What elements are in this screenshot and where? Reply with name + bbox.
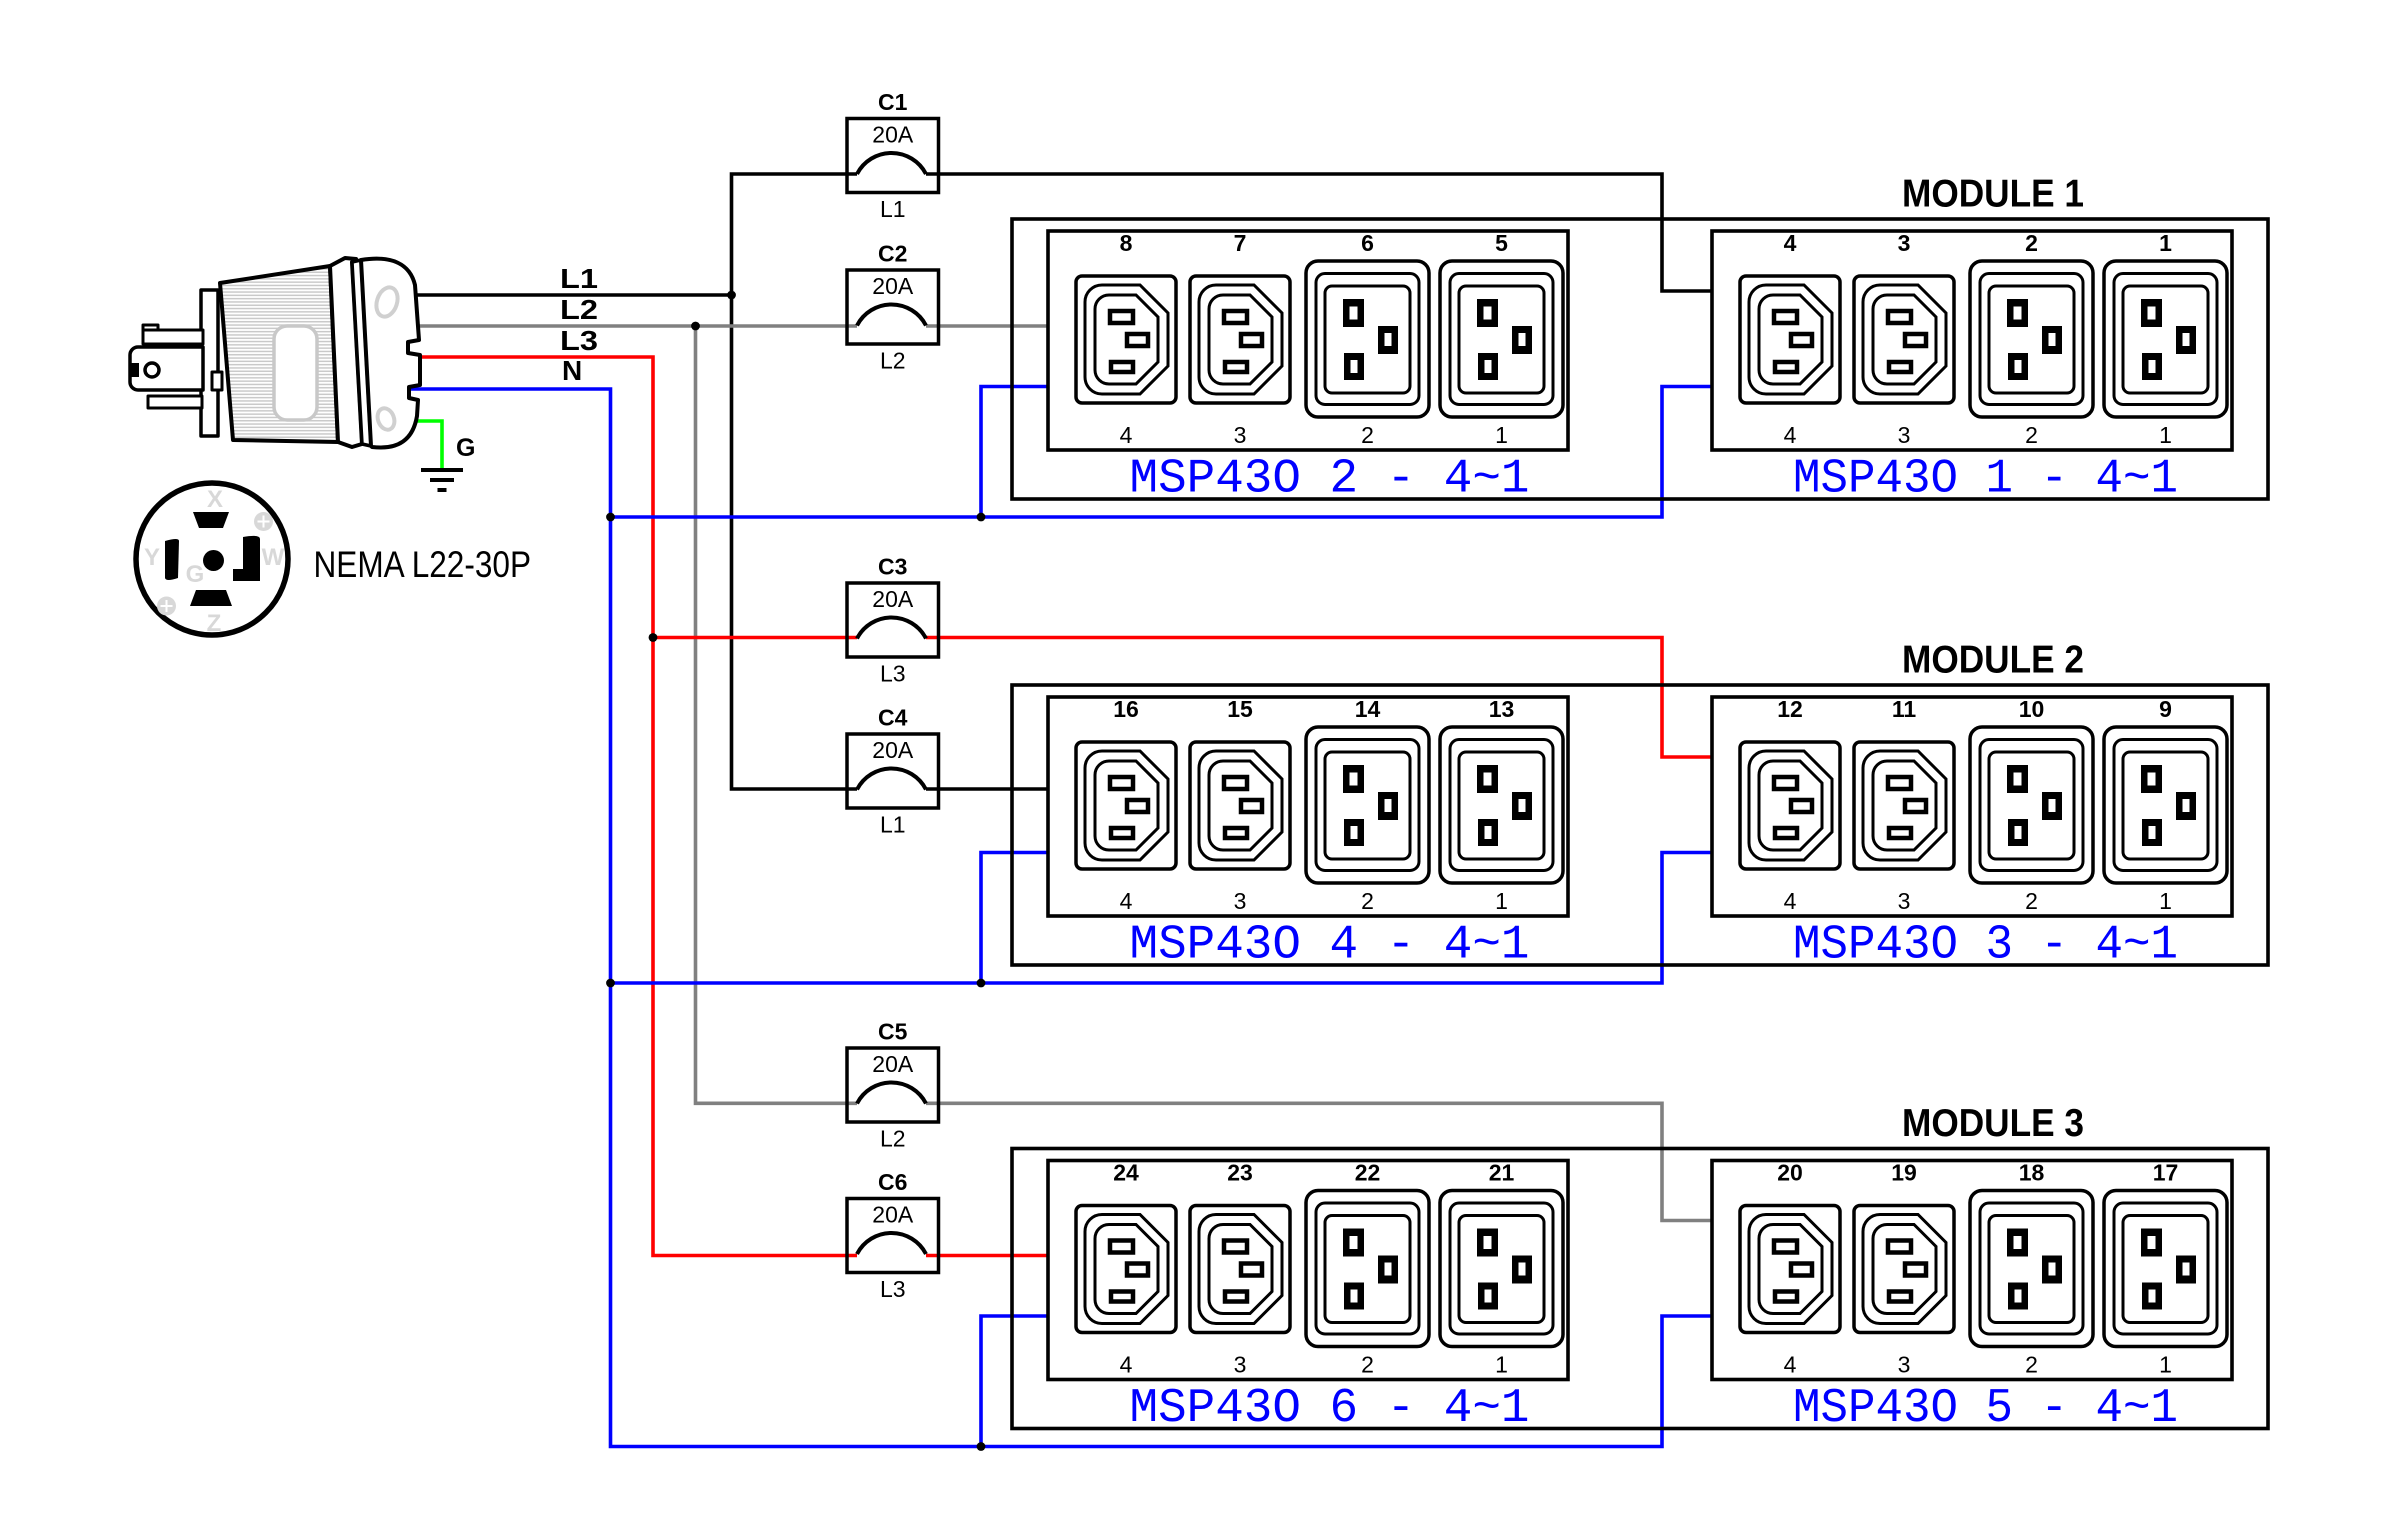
svg-text:11: 11 — [1892, 696, 1917, 722]
svg-text:15: 15 — [1227, 696, 1253, 722]
svg-text:L2: L2 — [560, 294, 598, 325]
svg-text:MSP43O 6 - 4~1: MSP43O 6 - 4~1 — [1130, 1382, 1530, 1436]
svg-text:Z: Z — [207, 610, 222, 637]
svg-text:3: 3 — [1898, 1352, 1911, 1378]
svg-text:23: 23 — [1227, 1160, 1253, 1186]
svg-text:2: 2 — [1361, 1352, 1374, 1378]
svg-text:MSP43O 1 - 4~1: MSP43O 1 - 4~1 — [1793, 453, 2178, 507]
svg-text:14: 14 — [1355, 696, 1381, 722]
svg-text:N: N — [562, 355, 582, 386]
svg-text:L1: L1 — [560, 263, 598, 294]
svg-text:W: W — [262, 544, 285, 571]
svg-text:MSP43O 4 - 4~1: MSP43O 4 - 4~1 — [1130, 919, 1530, 973]
svg-text:19: 19 — [1891, 1160, 1917, 1186]
svg-text:NEMA L22-30P: NEMA L22-30P — [314, 544, 532, 585]
svg-text:L3: L3 — [880, 1276, 906, 1302]
svg-text:20A: 20A — [872, 1202, 914, 1228]
svg-text:C2: C2 — [878, 241, 907, 267]
svg-text:C4: C4 — [878, 705, 908, 731]
svg-text:20A: 20A — [872, 586, 914, 612]
svg-text:3: 3 — [1898, 422, 1911, 448]
svg-text:4: 4 — [1784, 888, 1797, 914]
svg-text:C1: C1 — [878, 89, 908, 115]
svg-text:MSP43O 2 - 4~1: MSP43O 2 - 4~1 — [1130, 453, 1530, 507]
svg-text:4: 4 — [1784, 422, 1797, 448]
svg-text:3: 3 — [1234, 1352, 1247, 1378]
svg-text:24: 24 — [1113, 1160, 1139, 1186]
svg-text:L3: L3 — [560, 325, 598, 356]
svg-text:1: 1 — [2159, 888, 2172, 914]
svg-text:2: 2 — [2025, 888, 2038, 914]
svg-text:10: 10 — [2019, 696, 2045, 722]
svg-text:6: 6 — [1361, 230, 1374, 256]
svg-text:4: 4 — [1120, 422, 1133, 448]
svg-text:20: 20 — [1777, 1160, 1803, 1186]
svg-text:MSP43O 3 - 4~1: MSP43O 3 - 4~1 — [1793, 919, 2178, 973]
svg-text:9: 9 — [2159, 696, 2172, 722]
svg-text:1: 1 — [2159, 1352, 2172, 1378]
svg-text:1: 1 — [1495, 888, 1508, 914]
svg-text:2: 2 — [2025, 422, 2038, 448]
svg-text:20A: 20A — [872, 273, 914, 299]
svg-text:8: 8 — [1120, 230, 1133, 256]
svg-text:C5: C5 — [878, 1019, 908, 1045]
svg-text:20A: 20A — [872, 737, 914, 763]
svg-text:13: 13 — [1489, 696, 1515, 722]
svg-text:4: 4 — [1120, 1352, 1133, 1378]
svg-text:3: 3 — [1234, 888, 1247, 914]
svg-text:5: 5 — [1495, 230, 1508, 256]
svg-text:1: 1 — [1495, 422, 1508, 448]
svg-text:X: X — [207, 486, 223, 513]
svg-text:L1: L1 — [880, 196, 906, 222]
svg-text:18: 18 — [2019, 1160, 2045, 1186]
svg-text:22: 22 — [1355, 1160, 1381, 1186]
svg-text:MODULE 2: MODULE 2 — [1902, 639, 2084, 682]
svg-text:4: 4 — [1784, 230, 1797, 256]
svg-text:L2: L2 — [880, 348, 906, 374]
svg-text:4: 4 — [1784, 1352, 1797, 1378]
svg-text:MODULE 3: MODULE 3 — [1902, 1102, 2084, 1145]
svg-text:12: 12 — [1777, 696, 1803, 722]
svg-text:2: 2 — [2025, 230, 2038, 256]
svg-text:G: G — [456, 434, 475, 462]
svg-text:MODULE 1: MODULE 1 — [1902, 173, 2084, 216]
svg-text:L2: L2 — [880, 1126, 906, 1152]
svg-text:Y: Y — [144, 544, 160, 571]
svg-text:MSP43O 5 - 4~1: MSP43O 5 - 4~1 — [1793, 1382, 2178, 1436]
svg-text:2: 2 — [2025, 1352, 2038, 1378]
svg-text:2: 2 — [1361, 888, 1374, 914]
svg-text:16: 16 — [1113, 696, 1139, 722]
svg-text:3: 3 — [1898, 230, 1911, 256]
svg-text:3: 3 — [1234, 422, 1247, 448]
svg-text:L3: L3 — [880, 661, 906, 687]
svg-text:21: 21 — [1489, 1160, 1515, 1186]
svg-text:1: 1 — [2159, 422, 2172, 448]
svg-text:7: 7 — [1234, 230, 1247, 256]
svg-text:1: 1 — [1495, 1352, 1508, 1378]
svg-text:20A: 20A — [872, 1051, 914, 1077]
svg-text:G: G — [186, 561, 205, 588]
svg-text:17: 17 — [2153, 1160, 2179, 1186]
svg-text:1: 1 — [2159, 230, 2172, 256]
svg-text:2: 2 — [1361, 422, 1374, 448]
svg-text:20A: 20A — [872, 122, 914, 148]
svg-text:C3: C3 — [878, 554, 907, 580]
svg-text:L1: L1 — [880, 812, 906, 838]
svg-text:4: 4 — [1120, 888, 1133, 914]
svg-text:C6: C6 — [878, 1169, 907, 1195]
svg-text:3: 3 — [1898, 888, 1911, 914]
